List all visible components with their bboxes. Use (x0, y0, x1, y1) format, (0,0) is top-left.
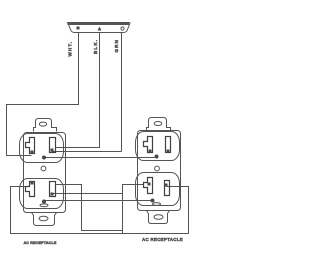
top-left outlet T-slot screw dot (31, 151, 34, 154)
top-left outlet T-slot (26, 138, 35, 154)
receptacle right: body (138, 131, 181, 211)
receptacle left: bottom outlet face (20, 179, 64, 209)
bottom-left outlet hot slot (50, 182, 56, 197)
receptacle left: top mounting tab (34, 119, 57, 132)
receptacle right: center screw (155, 166, 160, 171)
receptacle left: bottom tab hole (39, 216, 48, 221)
svg-text:GRN: GRN (114, 39, 119, 53)
wire: jumper between lower outlets (53, 193, 123, 195)
wire: lower-left outlet right terminal to middle vertical (56, 185, 123, 231)
bottom-right outlet ground oval (153, 203, 161, 206)
receptacle left: top tab hole (39, 122, 46, 126)
terminal mark C (circle) (121, 27, 124, 30)
svg-text:WHT.: WHT. (68, 41, 73, 57)
bottom-right outlet hot slot (165, 181, 170, 196)
bottom-left outlet T-slot screw dot (31, 182, 34, 185)
svg-text:AC RECEPTACLE: AC RECEPTACLE (23, 241, 56, 245)
bottom-right outlet T-slot screw dot (148, 183, 151, 186)
svg-text:BLK.: BLK. (93, 39, 98, 54)
bottom-left outlet hot screw dot (51, 193, 54, 196)
plug bar top rim (68, 23, 130, 26)
terminal mark B (square) (77, 27, 80, 30)
top-left outlet hot slot (50, 138, 56, 153)
top-right outlet hot slot (166, 137, 171, 153)
receptacle left: top outlet face (20, 134, 64, 163)
top-right outlet T-slot screw dot (149, 150, 152, 153)
bottom-left outlet ground dot (42, 200, 46, 204)
terminal mark A (triangle) (98, 27, 102, 31)
wire GRN: bar down to jumper (121, 33, 123, 152)
wire: middle vertical up to lower-right outlet left terminal (123, 185, 144, 234)
top-right outlet hot screw dot (167, 150, 170, 153)
top-right outlet ground dot (155, 155, 159, 159)
bottom-right outlet hot screw dot (165, 184, 168, 187)
receptacle right: top outlet face (136, 132, 180, 161)
receptacle right: top tab hole (154, 122, 162, 126)
receptacle right: top mounting tab (147, 118, 171, 131)
bottom-left outlet T-slot (26, 182, 35, 197)
top-left outlet ground dot (42, 156, 46, 160)
receptacle right: bottom mounting tab (147, 211, 170, 224)
receptacle right: bottom outlet face (136, 173, 180, 206)
receptacle left: bottom mounting tab (32, 213, 57, 226)
receptacle right: bottom tab hole (154, 215, 163, 220)
svg-text:AC RECEPTACLE: AC RECEPTACLE (142, 237, 183, 242)
receptacle left: center screw (41, 166, 46, 171)
wire: ground jumper between upper outlets (44, 157, 155, 159)
wire: ground jumper between lower outlets (44, 200, 152, 202)
wire WHT: bar to left receptacle upper-left terminal (7, 33, 79, 156)
wire BLK: bar to left receptacle upper-right terminal (56, 33, 100, 148)
bottom-left outlet ground oval (40, 204, 48, 207)
bottom-right outlet T-slot (144, 178, 153, 194)
wire: lower-left outlet left terminal, around bottom to lower-right outlet right terminal (11, 187, 189, 234)
receptacle left: body (24, 133, 66, 213)
top-left outlet hot screw dot (51, 149, 54, 152)
plug bar (68, 23, 131, 33)
bottom-right outlet ground dot (151, 199, 155, 203)
wire: GRN jumper into left receptacle right slot dot (52, 151, 122, 153)
top-right outlet T-slot (144, 137, 153, 153)
